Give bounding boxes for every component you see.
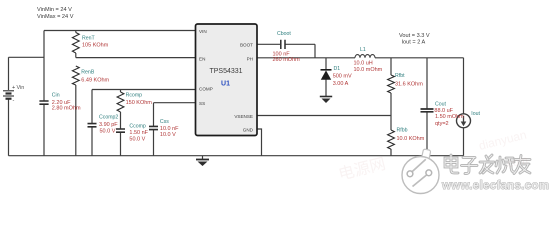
svg-text:VinMax = 24 V: VinMax = 24 V [37, 14, 74, 20]
svg-text:COMP: COMP [199, 87, 213, 92]
svg-text:3.90 pF: 3.90 pF [99, 122, 118, 128]
svg-text:RenT: RenT [82, 36, 96, 42]
svg-text:Vin: Vin [17, 85, 25, 91]
svg-text:SS: SS [199, 101, 205, 106]
svg-text:qty=2: qty=2 [435, 121, 449, 127]
svg-text:Vout = 3.3 V: Vout = 3.3 V [399, 33, 430, 39]
svg-text:Rfbb: Rfbb [397, 128, 408, 134]
svg-text:10.0 KOhm: 10.0 KOhm [397, 136, 425, 142]
svg-text:L1: L1 [360, 47, 366, 53]
svg-text:D1: D1 [334, 66, 341, 72]
svg-text:VIN: VIN [199, 29, 207, 34]
svg-text:Iout: Iout [471, 111, 480, 117]
svg-text:EN: EN [199, 56, 205, 61]
svg-text:BOOT: BOOT [240, 42, 253, 47]
svg-text:2.80 mOhm: 2.80 mOhm [52, 106, 81, 112]
svg-text:Rcomp: Rcomp [126, 93, 143, 99]
svg-text:88.0 uF: 88.0 uF [434, 108, 453, 114]
svg-text:VSENSE: VSENSE [234, 114, 253, 119]
svg-text:150 KOhm: 150 KOhm [126, 100, 153, 106]
svg-text:31.6 KOhm: 31.6 KOhm [395, 82, 423, 88]
svg-text:10.0 uH: 10.0 uH [354, 61, 373, 67]
svg-text:Ccomp: Ccomp [129, 123, 146, 129]
svg-text:+: + [12, 85, 15, 91]
svg-text:RenB: RenB [81, 69, 95, 75]
svg-text:GND: GND [243, 127, 254, 132]
svg-text:Cboot: Cboot [277, 31, 291, 37]
svg-text:Css: Css [160, 119, 169, 125]
svg-text:1.50 nF: 1.50 nF [129, 130, 148, 136]
svg-text:1.50 mOhm: 1.50 mOhm [435, 114, 464, 120]
svg-text:www.elecfans.com: www.elecfans.com [441, 180, 549, 192]
svg-text:Ccomp2: Ccomp2 [99, 115, 118, 121]
svg-text:500 mV: 500 mV [333, 73, 352, 79]
svg-text:10.0 V: 10.0 V [160, 132, 176, 138]
svg-text:Cin: Cin [52, 92, 60, 98]
svg-text:电源网: 电源网 [337, 155, 388, 184]
svg-text:260 mOhm: 260 mOhm [273, 57, 301, 63]
svg-text:6.49 KOhm: 6.49 KOhm [81, 77, 109, 83]
svg-text:-: - [13, 98, 15, 104]
svg-text:Iout = 2 A: Iout = 2 A [402, 40, 426, 46]
svg-text:10.0 mOhm: 10.0 mOhm [354, 67, 383, 73]
svg-text:Cout: Cout [435, 102, 447, 108]
svg-text:PH: PH [247, 56, 253, 61]
svg-text:Rfbt: Rfbt [395, 73, 405, 79]
svg-text:3.00 A: 3.00 A [333, 81, 349, 87]
svg-text:TPS54331: TPS54331 [209, 68, 242, 75]
svg-text:dianyuan: dianyuan [477, 128, 528, 153]
svg-text:50.0 V: 50.0 V [129, 136, 145, 142]
svg-text:105 KOhm: 105 KOhm [82, 43, 109, 49]
svg-text:10.0 nF: 10.0 nF [160, 126, 179, 132]
svg-text:U1: U1 [221, 81, 230, 88]
svg-text:VinMin = 24 V: VinMin = 24 V [37, 7, 72, 13]
svg-text:50.0 V: 50.0 V [100, 128, 116, 134]
